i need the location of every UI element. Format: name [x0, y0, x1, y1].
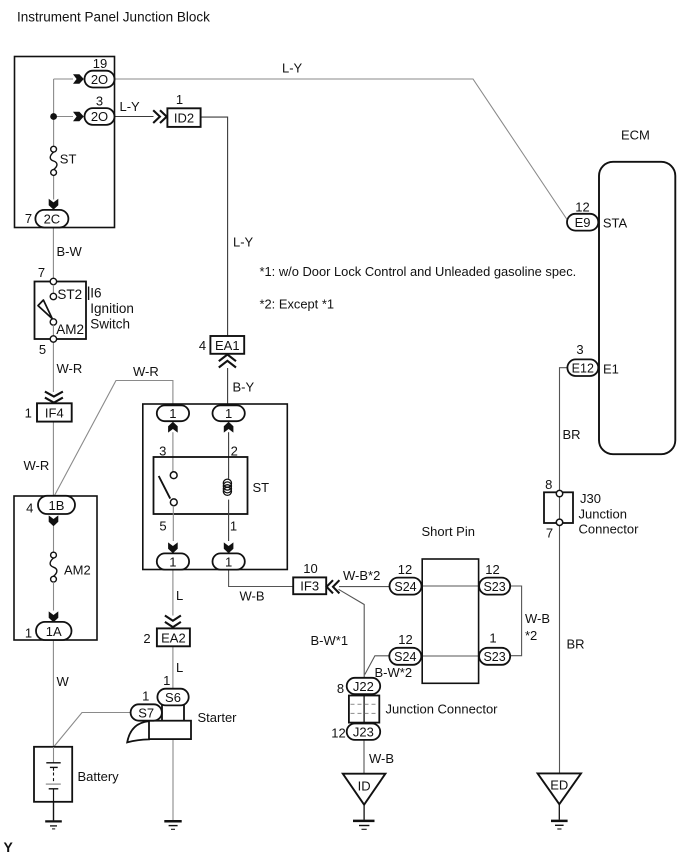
- connector oval 1 (relay bottom-right): [213, 553, 245, 569]
- wire pin5 from contact down: [172, 506, 174, 541]
- svg-text:E12: E12: [572, 361, 594, 375]
- svg-text:1: 1: [169, 406, 176, 421]
- connector 1A pin1: [25, 622, 72, 641]
- battery box: [34, 747, 72, 802]
- wire B-W*1: branch from IF3 down to J22: [339, 589, 365, 678]
- wire pin2 down into inner box (coil): [228, 432, 230, 479]
- wire B-Y: EA1 chevrons down to ST relay pin2 oval: [227, 368, 229, 406]
- connector S24 pin12 top: [390, 562, 422, 595]
- svg-text:L-Y: L-Y: [282, 61, 303, 76]
- wire W-R: IF4 down to 1B: [52, 422, 54, 496]
- connector EA1 pin4: [199, 336, 244, 354]
- svg-text:W-B: W-B: [525, 611, 550, 626]
- svg-text:ST: ST: [253, 480, 270, 495]
- junction connector body: [349, 696, 379, 723]
- wire W-R: ignition switch to IF4: [52, 342, 54, 392]
- svg-text:L-Y: L-Y: [233, 235, 254, 250]
- connector S6: [157, 689, 188, 706]
- svg-text:5: 5: [39, 342, 46, 357]
- chevrons down into EA2: [165, 616, 181, 628]
- svg-text:ED: ED: [550, 778, 568, 793]
- svg-text:Starter: Starter: [198, 710, 238, 725]
- connector oval 1 (relay top-left): [157, 405, 189, 421]
- svg-text:2: 2: [231, 444, 238, 459]
- svg-text:8: 8: [545, 477, 552, 492]
- svg-text:12: 12: [398, 632, 412, 647]
- arrow below 1B: [49, 515, 59, 526]
- connector oval 1 (relay bottom-left): [157, 553, 189, 569]
- connector oval 1 (relay top-right): [213, 405, 245, 421]
- fuse ST: [50, 146, 76, 175]
- connector S23 pin1 bottom: [479, 631, 510, 665]
- svg-text:2O: 2O: [91, 109, 108, 124]
- svg-text:J23: J23: [353, 725, 374, 740]
- svg-text:*2: Except *1: *2: Except *1: [260, 297, 335, 312]
- wire L-Y: ID2 right, down to EA1: [201, 117, 228, 336]
- svg-text:7: 7: [546, 526, 553, 541]
- relay switch contact top: [170, 472, 177, 479]
- svg-text:W-R: W-R: [24, 458, 50, 473]
- contact ST2: [50, 293, 56, 299]
- svg-text:BR: BR: [567, 637, 585, 652]
- connector S24 pin12 bottom: [389, 632, 421, 665]
- connector E12 pin3: [567, 342, 598, 376]
- wire W-B: ST relay pin1 oval to IF3: [229, 570, 294, 587]
- AM2 fuse box: [14, 496, 97, 640]
- chevrons left into IF3: [327, 580, 340, 593]
- svg-text:2O: 2O: [91, 72, 108, 87]
- svg-text:STA: STA: [603, 216, 628, 231]
- svg-text:B-Y: B-Y: [233, 380, 255, 395]
- svg-text:AM2: AM2: [64, 563, 91, 578]
- svg-text:I6: I6: [90, 286, 101, 301]
- wire inside AM2 box lower: [53, 582, 55, 610]
- arrow down into bottom-right oval: [224, 542, 234, 553]
- wire below fuse ST to 2C arrow: [53, 175, 55, 199]
- svg-text:4: 4: [26, 501, 33, 516]
- starter horn: [127, 721, 149, 742]
- wire from coil down: [228, 500, 230, 541]
- connector S7: [131, 704, 162, 720]
- ECM body: [599, 162, 675, 454]
- arrow into 2C: [49, 199, 59, 210]
- svg-text:1: 1: [230, 519, 237, 534]
- svg-text:1: 1: [225, 406, 232, 421]
- connector J22 pin8: [337, 678, 380, 696]
- wire: starter to ground: [172, 739, 174, 820]
- svg-text:B-W*1: B-W*1: [311, 633, 349, 648]
- svg-text:Short Pin: Short Pin: [422, 524, 475, 539]
- bracket W-B*2 right of S23 pair: [510, 586, 521, 656]
- svg-text:Junction Connector: Junction Connector: [386, 702, 499, 717]
- wire L: ST relay pin5 oval to EA2: [172, 570, 174, 616]
- wire B-W*2: S24 bottom to J22 branch: [365, 656, 390, 675]
- svg-text:1: 1: [489, 631, 496, 646]
- svg-text:J22: J22: [353, 679, 374, 694]
- connector J23 pin12: [331, 724, 380, 741]
- battery internal plates: [46, 747, 61, 802]
- svg-text:B-W: B-W: [57, 244, 83, 259]
- wire W-R branch: 1B diagonal up to ST relay pin3 oval: [55, 381, 173, 496]
- svg-text:7: 7: [38, 265, 45, 280]
- svg-text:W-R: W-R: [133, 364, 159, 379]
- svg-text:S7: S7: [138, 705, 154, 720]
- svg-text:12: 12: [398, 562, 412, 577]
- connector 2O pin19: [85, 56, 115, 88]
- svg-text:S24: S24: [394, 650, 416, 664]
- connector 2C pin7: [25, 210, 69, 228]
- svg-text:EA1: EA1: [215, 338, 240, 353]
- terminal circle top: [50, 278, 56, 284]
- chevrons into ID2: [153, 110, 167, 123]
- svg-text:1: 1: [25, 406, 32, 421]
- svg-text:7: 7: [25, 211, 32, 226]
- relay outer box: [143, 404, 287, 570]
- svg-text:1: 1: [25, 626, 32, 641]
- svg-text:19: 19: [93, 56, 107, 71]
- svg-text:3: 3: [159, 444, 166, 459]
- svg-text:1A: 1A: [46, 624, 62, 639]
- relay switch contact bottom: [170, 499, 177, 506]
- connector ID2 pin1: [167, 92, 200, 127]
- svg-text:Instrument Panel Junction Bloc: Instrument Panel Junction Block: [17, 10, 210, 25]
- wire L: EA2 to S6: [172, 646, 174, 688]
- wire BR: E12 to J30 to ED ground: [560, 368, 568, 774]
- connector S23 pin12 top: [479, 562, 510, 595]
- svg-text:3: 3: [96, 94, 103, 109]
- svg-text:Connector: Connector: [579, 522, 640, 537]
- switch lever: [38, 300, 52, 319]
- terminal circle bottom: [50, 336, 56, 342]
- svg-text:BR: BR: [563, 427, 581, 442]
- wire W-B: J23 to ID ground: [363, 740, 365, 774]
- wire W: 1A down to battery: [52, 640, 54, 747]
- short pin box: [422, 559, 478, 683]
- wire stub to 2O pin19 arrow: [54, 78, 73, 80]
- svg-text:12: 12: [485, 562, 499, 577]
- svg-text:1B: 1B: [49, 498, 65, 513]
- svg-text:W: W: [57, 674, 70, 689]
- relay switch lever: [159, 476, 171, 499]
- svg-text:ID2: ID2: [174, 111, 194, 126]
- arrow into 2O pin19: [73, 74, 84, 84]
- connector 2O pin3: [85, 94, 115, 125]
- wire L-Y black: 2O pin3 to ID2: [115, 116, 154, 118]
- connector IF3 pin10: [293, 561, 326, 594]
- ground ID triangle: [343, 774, 386, 830]
- svg-text:12: 12: [331, 726, 345, 741]
- svg-text:*2: *2: [525, 628, 537, 643]
- relay coil: [223, 479, 231, 495]
- arrow down into bottom-left oval: [168, 542, 178, 553]
- svg-text:3: 3: [576, 342, 583, 357]
- internal wire top: [52, 285, 54, 294]
- connector IF4 pin1: [25, 403, 72, 421]
- svg-text:Y: Y: [4, 839, 14, 855]
- battery ground: [45, 802, 62, 829]
- relay inner box: [154, 457, 248, 514]
- svg-text:Junction: Junction: [579, 507, 627, 522]
- starter body solenoid: [162, 704, 184, 723]
- svg-text:L: L: [176, 660, 183, 675]
- chevrons into IF4: [45, 392, 63, 403]
- junction connector J30: [544, 477, 573, 541]
- wire W-B*2: IF3 chevron to S24 top: [339, 586, 390, 588]
- svg-text:S23: S23: [483, 650, 505, 664]
- svg-text:1: 1: [169, 554, 176, 569]
- svg-text:ECM: ECM: [621, 128, 650, 143]
- wire inside AM2 box upper: [53, 526, 55, 552]
- connector EA2 pin2: [143, 628, 190, 646]
- svg-text:Switch: Switch: [90, 317, 130, 332]
- junction dot: [50, 113, 57, 120]
- svg-text:W-B: W-B: [369, 751, 394, 766]
- svg-text:S23: S23: [483, 580, 505, 594]
- svg-text:L: L: [176, 588, 183, 603]
- svg-text:2C: 2C: [44, 211, 61, 226]
- svg-text:12: 12: [575, 200, 589, 215]
- arrow up into right top oval: [224, 422, 234, 433]
- arrow up into left top oval: [168, 422, 178, 433]
- svg-text:1: 1: [142, 689, 149, 704]
- svg-text:S6: S6: [165, 690, 181, 705]
- svg-text:E9: E9: [575, 215, 591, 230]
- svg-text:1: 1: [176, 92, 183, 107]
- svg-text:4: 4: [199, 338, 206, 353]
- internal wire bottom: [52, 325, 54, 336]
- svg-text:2: 2: [143, 631, 150, 646]
- svg-text:IF4: IF4: [45, 405, 64, 420]
- chevrons up below EA1: [219, 355, 236, 368]
- svg-text:1: 1: [163, 673, 170, 688]
- starter body main: [147, 721, 191, 739]
- fuse AM2: [50, 552, 91, 582]
- svg-text:ST: ST: [60, 152, 77, 167]
- wire L-Y from 2O pin19 to ECM E9 (horizontal + diagonal): [115, 79, 568, 220]
- svg-text:J30: J30: [580, 491, 601, 506]
- connector E9 pin12: [567, 200, 598, 231]
- svg-text:L-Y: L-Y: [120, 99, 141, 114]
- separator bar: [88, 287, 90, 301]
- svg-text:EA2: EA2: [161, 630, 186, 645]
- svg-text:Ignition: Ignition: [90, 301, 134, 316]
- starter ground: [164, 821, 181, 829]
- contact AM2: [50, 319, 56, 325]
- svg-text:W-B*2: W-B*2: [343, 568, 380, 583]
- arrow into 1A: [49, 611, 59, 622]
- wire: S24 top to S23 top through short pin: [421, 585, 479, 587]
- connector 1B pin4: [26, 496, 75, 516]
- svg-text:S24: S24: [394, 580, 416, 594]
- svg-text:W-R: W-R: [57, 361, 83, 376]
- svg-text:ST2: ST2: [57, 287, 82, 302]
- wire stub to 2O pin3 arrow: [54, 116, 73, 118]
- svg-text:B-W*2: B-W*2: [375, 665, 413, 680]
- wire: S24 bottom to S23 bottom through short pin: [421, 655, 479, 657]
- svg-text:E1: E1: [603, 362, 619, 377]
- svg-text:10: 10: [303, 561, 317, 576]
- wire pin3 down into inner box: [172, 432, 174, 472]
- svg-text:5: 5: [159, 519, 166, 534]
- svg-text:*1: w/o Door Lock Control and: *1: w/o Door Lock Control and Unleaded g…: [260, 264, 577, 279]
- svg-text:Battery: Battery: [78, 769, 120, 784]
- svg-text:1: 1: [225, 554, 232, 569]
- arrow into 2O pin3: [73, 112, 84, 122]
- wire vertical inside junction block: [53, 79, 55, 146]
- wire B-W: 2C to ignition switch: [52, 228, 54, 279]
- svg-text:IF3: IF3: [300, 579, 319, 594]
- svg-text:ID: ID: [358, 779, 371, 794]
- svg-text:AM2: AM2: [56, 322, 84, 337]
- svg-text:8: 8: [337, 681, 344, 696]
- junction block box: [15, 57, 115, 228]
- ground ED triangle: [538, 773, 581, 829]
- ignition switch box I6: [35, 282, 87, 340]
- svg-text:W-B: W-B: [240, 589, 265, 604]
- wire from S7 to battery top: [54, 713, 131, 748]
